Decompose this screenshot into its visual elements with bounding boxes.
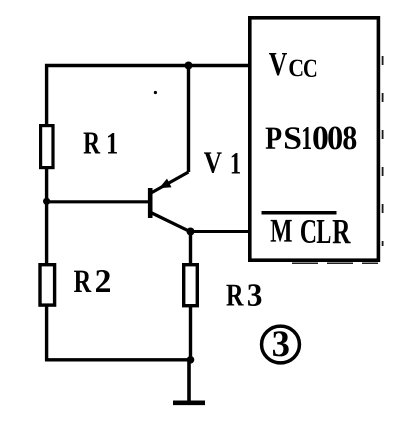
resistor R1 [41,126,53,168]
wire base wire to transistor [47,200,150,203]
figure number circle [262,326,300,363]
node collector junction [187,228,195,236]
transistor V1 emitter arrow [159,179,172,189]
label R2 [74,270,110,292]
part number PS1008 [266,127,357,150]
resistor R3 [184,265,198,306]
wire left vertical R1 to R2 [45,169,48,264]
wire R3 to bottom rail [189,307,192,361]
wire collector to MCLR pin [191,230,251,233]
transistor V1 collector lead [151,213,191,232]
IC U1 PS1008 box [250,18,379,260]
speck artifact [154,91,157,94]
node bottom junction [187,356,195,364]
wire left vertical R2 to bottom rail [45,306,48,362]
transistor V1 base bar [148,188,153,218]
wire left vertical rail to R1 [45,64,48,126]
wire Vcc rail top horizontal [45,64,250,67]
pin label MCLR overline [262,211,337,215]
node emitter Vcc junction [185,62,193,70]
wire bottom horizontal rail [45,358,191,361]
wire junction down to ground [187,360,191,403]
figure number 3 [273,331,289,356]
transistor V1 emitter lead [151,172,189,193]
designator V1 [204,152,240,173]
label R3 [226,284,261,306]
pin label MCLR text [271,220,351,243]
resistor R2 [40,265,55,305]
scan artifact dashes below box bottom edge [292,262,378,264]
node base divider junction [43,198,50,205]
scan artifact dashes right of box edge [382,56,384,246]
wire emitter vertical drop [187,66,190,173]
pin label Vcc [269,53,316,77]
wire collector down to R3 [189,232,192,265]
label R1 [84,132,117,153]
ground [173,400,205,405]
